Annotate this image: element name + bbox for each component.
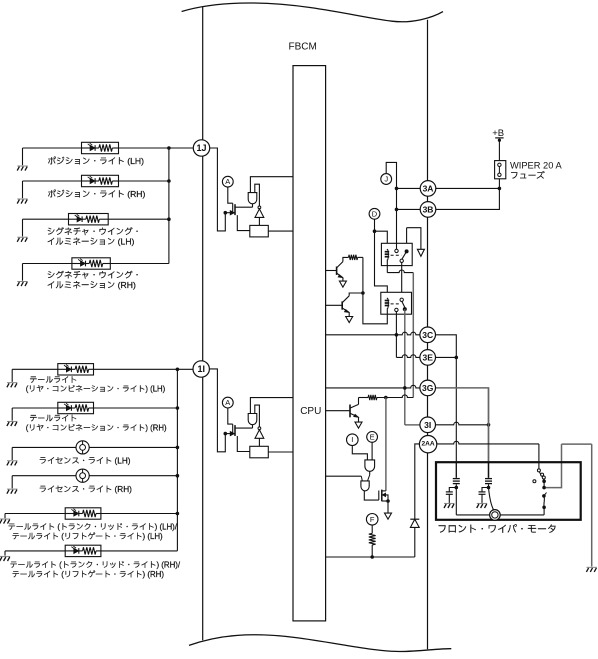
- svg-text:フューズ: フューズ: [510, 170, 545, 180]
- svg-text:シグネチャ・ウイング・: シグネチャ・ウイング・: [47, 227, 142, 237]
- svg-text:テールライト (リフトゲート・ライト) (LH): テールライト (リフトゲート・ライト) (LH): [12, 532, 163, 541]
- svg-text:WIPER 20 A: WIPER 20 A: [510, 160, 562, 170]
- svg-text:シグネチャ・ウイング・: シグネチャ・ウイング・: [47, 270, 142, 280]
- svg-text:イルミネーション (RH): イルミネーション (RH): [47, 280, 136, 290]
- svg-text:1J: 1J: [196, 143, 206, 153]
- svg-text:テールライト: テールライト: [29, 414, 77, 423]
- svg-text:テールライト (トランク・リッド・ライト) (LH)/: テールライト (トランク・リッド・ライト) (LH)/: [8, 522, 178, 531]
- svg-text:J: J: [384, 175, 388, 184]
- svg-text:2AA: 2AA: [421, 441, 434, 448]
- svg-text:D: D: [372, 209, 378, 218]
- svg-text:ライセンス・ライト (LH): ライセンス・ライト (LH): [39, 457, 131, 466]
- svg-text:ポジション・ライト (LH): ポジション・ライト (LH): [48, 156, 145, 166]
- svg-text:テールライト (トランク・リッド・ライト) (RH)/: テールライト (トランク・リッド・ライト) (RH)/: [10, 561, 181, 570]
- svg-text:FBCM: FBCM: [289, 41, 317, 52]
- svg-text:ポジション・ライト (RH): ポジション・ライト (RH): [48, 189, 146, 199]
- svg-text:(リヤ・コンビネーション・ライト) (RH): (リヤ・コンビネーション・ライト) (RH): [26, 423, 167, 432]
- svg-text:ライセンス・ライト (RH): ライセンス・ライト (RH): [39, 485, 132, 494]
- svg-text:A: A: [225, 177, 230, 186]
- svg-text:3B: 3B: [423, 204, 434, 214]
- svg-text:フロント・ワイパ・モータ: フロント・ワイパ・モータ: [437, 523, 557, 535]
- svg-text:+B: +B: [492, 128, 504, 139]
- svg-text:3I: 3I: [424, 420, 431, 430]
- svg-text:A: A: [225, 398, 230, 407]
- svg-text:3G: 3G: [422, 383, 434, 393]
- svg-text:3E: 3E: [422, 352, 433, 362]
- svg-text:テールライト (リフトゲート・ライト) (RH): テールライト (リフトゲート・ライト) (RH): [12, 570, 165, 579]
- svg-text:イルミネーション (LH): イルミネーション (LH): [47, 236, 135, 246]
- svg-text:E: E: [370, 432, 375, 441]
- svg-text:CPU: CPU: [300, 406, 321, 417]
- svg-text:3C: 3C: [422, 330, 433, 340]
- svg-text:3A: 3A: [423, 183, 434, 193]
- svg-text:1I: 1I: [197, 364, 205, 374]
- svg-text:F: F: [370, 515, 375, 524]
- svg-text:(リヤ・コンビネーション・ライト) (LH): (リヤ・コンビネーション・ライト) (LH): [26, 385, 166, 394]
- svg-text:テールライト: テールライト: [29, 375, 77, 384]
- svg-text:I: I: [351, 435, 353, 444]
